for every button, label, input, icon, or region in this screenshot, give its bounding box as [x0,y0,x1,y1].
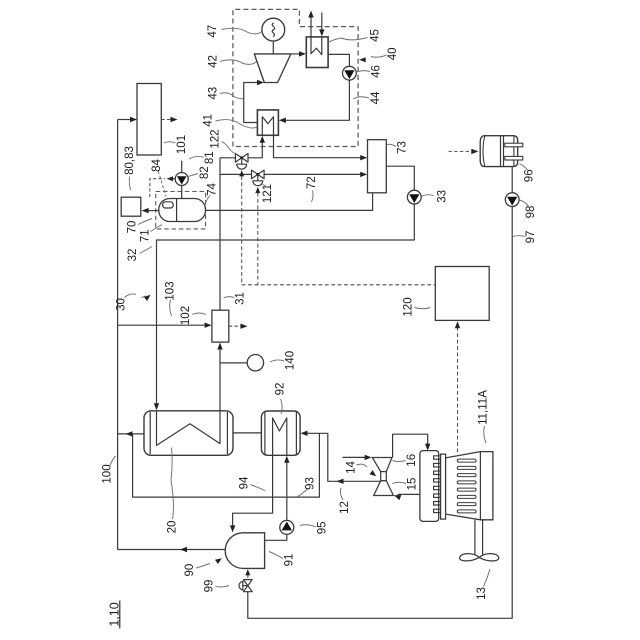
valve 99 and line from tank bottom [245,569,250,575]
svg-text:94: 94 [239,476,251,489]
svg-text:41: 41 [202,114,214,127]
svg-text:31: 31 [235,292,247,305]
svg-text:81: 81 [204,151,216,164]
wire 31 riser from cooler 102 to valves [219,158,221,310]
valve 122 [235,154,241,163]
control line engine sensor to controller 120 (dashed) [457,326,459,453]
wire engine outlet to valve 15 [398,493,420,495]
svg-text:47: 47 [207,25,219,38]
svg-text:121: 121 [262,184,274,203]
heat exchanger 20 [144,411,233,456]
wire evaporator outlet to box 73 [274,135,364,157]
engine body [446,452,493,520]
wire heat exchanger 20 outlet to line 100 [118,433,144,435]
svg-text:46: 46 [371,65,383,78]
svg-text:96: 96 [524,169,536,182]
wire inlet arrow into valve 16 [343,456,368,458]
wire machine 96 to pump 98 [511,167,513,193]
svg-text:12: 12 [339,501,351,514]
wire branch to sensor 140 [220,362,247,364]
svg-text:140: 140 [285,351,297,370]
svg-text:40: 40 [387,47,399,60]
wire turbine exhaust to condenser [291,53,302,55]
engine mounting bar [441,454,446,519]
heat exchanger 92 [261,411,300,455]
svg-text:16: 16 [406,454,418,467]
dashed leader to heater 84 [158,171,166,197]
wire from HX20 top to cooler 102 bottom [219,346,221,411]
wire 94 from HX92 bottom to tank 90 [233,455,273,528]
svg-text:32: 32 [127,249,139,262]
wire 30/103 seawater line into cooler 102 [118,324,208,326]
engine charge cooler comb [434,456,441,517]
wire 93 branch from HX20 outlet to HX92 inlet line [133,433,320,497]
svg-text:20: 20 [167,521,179,534]
ORC unit boundary 40 (dashed box) [233,9,358,146]
svg-text:82: 82 [199,166,211,179]
wire hot water line through valve 122 to evaporator 41 [220,140,262,158]
wire power input to machine 96 (dashed arrow) [449,150,474,152]
dashed enclosure 74 [156,192,206,229]
machine 96 [480,136,518,167]
wire tank 70 to box 80,83 [145,210,159,212]
pump 95 [280,520,294,534]
wire tank 90 to pump 95 to HX92 bottom [265,534,287,540]
pump 98 [505,193,519,207]
sensor 140 [247,355,263,371]
engine 11,11A cooling jacket [420,451,439,522]
svg-text:97: 97 [525,231,537,244]
generator 47 [262,18,285,41]
wire exhaust discharge from 101 (dashed arrow) [161,119,173,121]
exhaust unit 101 [137,84,161,156]
turbine 42 [254,54,291,83]
pump 82 with discharge stub arrow [181,185,183,198]
svg-text:93: 93 [305,477,317,490]
wire 44 pump 46 to evaporator 41 [283,80,350,120]
svg-text:30: 30 [116,298,128,311]
wire shaft generator-turbine [272,41,274,54]
svg-text:103: 103 [164,281,176,300]
wire box 73 right outlet to pump 33 [386,166,414,190]
svg-text:11,11A: 11,11A [477,390,489,425]
control line box 80,83 to pump 82 (dashed) [150,179,165,197]
svg-text:84: 84 [151,159,163,172]
pump 33 [407,190,421,204]
wire 100 inlet into unit 101 [118,119,133,121]
wire 16 outlet to engine jacket inlet [393,434,428,457]
wire 97 bottom return line [248,207,512,619]
cooler 102 [212,310,229,342]
svg-text:42: 42 [208,55,220,68]
pump 46 [343,66,357,80]
svg-text:72: 72 [306,176,318,189]
wire 100 main vertical line [117,120,119,550]
heater 84 inside tank [163,202,174,208]
svg-text:73: 73 [397,141,409,154]
wire HX20 to HX92 [233,432,261,434]
hot water tank 70/71 [159,199,206,222]
condenser 45 [306,37,328,68]
wire cooling water outlet pipe (up arrow) [310,15,312,37]
svg-text:74: 74 [207,183,219,196]
wire 72 from riser through valve 121 to box 73 [220,173,364,175]
wire 12 engine cooling water into HX92 [304,433,381,481]
controller 120 [435,267,489,321]
svg-text:15: 15 [406,478,418,491]
svg-text:120: 120 [402,297,414,316]
propeller 13 [460,554,499,561]
svg-text:45: 45 [369,29,381,42]
svg-text:101: 101 [176,135,188,154]
control line valve 121 to controller 120 (dashed) [255,187,260,193]
svg-text:44: 44 [370,91,382,104]
svg-text:80,83: 80,83 [124,146,136,175]
svg-text:122: 122 [210,129,222,148]
tank 90/91 [225,533,264,569]
wire box 73 bottom outlet to tank 70 [206,193,373,211]
svg-text:33: 33 [437,190,449,203]
svg-text:13: 13 [476,587,488,600]
box 73 [368,140,387,193]
valve 121 [252,170,258,179]
svg-text:92: 92 [275,383,287,396]
svg-text:95: 95 [316,521,328,534]
evaporator 41 [257,110,278,135]
wire 43 evaporator to turbine inlet [244,83,260,123]
svg-text:14: 14 [346,461,358,474]
svg-text:99: 99 [204,580,216,593]
wire 100 bottom horizontal from tank 90 [118,549,225,551]
wire condenser to pump 46 [328,54,349,66]
svg-text:98: 98 [525,206,537,219]
thermostatic valve 14/15/16 [372,458,392,472]
svg-text:91: 91 [284,554,296,567]
box 80,83 [121,197,141,216]
svg-text:100: 100 [101,464,113,483]
svg-text:43: 43 [208,87,220,100]
wire seawater discharge from 102 (dashed arrow) [229,325,244,327]
svg-text:70: 70 [126,221,138,234]
svg-text:90: 90 [184,564,196,577]
svg-text:71: 71 [140,229,152,242]
control line valve 122 to controller 120 (dashed) [239,170,244,176]
wire cooling water inlet pipe (down arrow) [321,13,323,33]
svg-text:102: 102 [180,306,192,325]
wire 32 pump 33 to heat exchanger 20 [157,204,415,406]
propeller shaft [474,520,476,555]
